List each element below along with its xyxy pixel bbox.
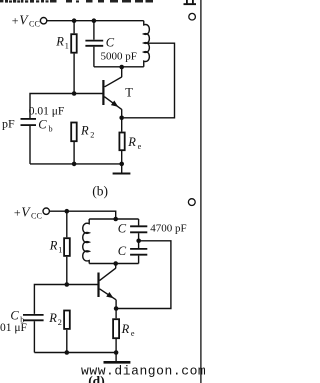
- svg-text:C: C: [106, 35, 115, 49]
- junction emitter node (b): [119, 116, 124, 121]
- label Re (b): [127, 135, 141, 151]
- label R2 (b): [80, 124, 94, 140]
- junction tank top feed (d): [113, 217, 118, 222]
- wire Vcc rail (b): [47, 20, 144, 22]
- svg-text:5000 pF: 5000 pF: [101, 50, 137, 62]
- svg-text:2: 2: [90, 131, 94, 140]
- svg-text:4700 pF: 4700 pF: [150, 222, 186, 234]
- wire coil tap to emitter (b): [124, 43, 175, 118]
- junction cap midpoint (d): [136, 239, 141, 244]
- junction collector node (b): [119, 65, 124, 70]
- transistor T (b): [103, 67, 121, 118]
- junction ground node (d): [114, 350, 119, 355]
- wire ground rail (b): [30, 163, 122, 165]
- top-right cropped glyph: [184, 0, 197, 5]
- junction R2 bottom (b): [72, 162, 77, 167]
- wire cap tap to emitter (d): [118, 241, 171, 309]
- label Re (d): [121, 322, 135, 338]
- svg-text:1: 1: [58, 245, 62, 254]
- svg-text:R: R: [80, 124, 89, 138]
- svg-text:www.diangon.com: www.diangon.com: [81, 363, 206, 378]
- svg-text:0.01 μF: 0.01 μF: [29, 105, 65, 117]
- svg-text:C: C: [10, 309, 19, 323]
- svg-text:+: +: [12, 14, 19, 28]
- svg-text:b: b: [49, 125, 53, 134]
- junction collector node (d): [113, 261, 118, 266]
- capacitor C (b): [85, 21, 103, 67]
- capacitor C upper (d): [130, 219, 147, 241]
- svg-text:C: C: [38, 118, 47, 132]
- junction emitter node (d): [114, 306, 119, 311]
- label R2 (d): [48, 311, 62, 327]
- svg-text:e: e: [131, 329, 135, 338]
- inductor L (d): [83, 219, 89, 264]
- svg-text:2: 2: [58, 318, 62, 327]
- transistor T (d): [99, 264, 117, 309]
- page rule (right vertical line): [200, 0, 202, 383]
- label +Vcc (d): [14, 205, 43, 221]
- resistor Re (b): [119, 118, 124, 164]
- resistor R1 (b): [71, 21, 77, 94]
- resistor Re (d): [113, 309, 119, 353]
- svg-text:R: R: [121, 322, 130, 336]
- svg-text:+: +: [14, 206, 21, 220]
- wire base (b): [30, 94, 103, 119]
- svg-text:01 μF: 01 μF: [0, 322, 27, 334]
- svg-text:V: V: [19, 13, 29, 28]
- label R1 (d): [49, 238, 63, 254]
- svg-text:C: C: [118, 244, 127, 258]
- junction R1 top (d): [65, 209, 70, 214]
- svg-text:CC: CC: [31, 211, 42, 220]
- wire base (d): [34, 285, 98, 314]
- junction C top (b): [92, 18, 97, 23]
- wire tank bottom rail (b): [94, 66, 144, 68]
- capacitor Cb (d): [23, 315, 44, 353]
- svg-text:e: e: [138, 142, 142, 151]
- label R1 (b): [55, 35, 69, 51]
- label Cb (b): [38, 118, 52, 134]
- svg-text:CC: CC: [29, 20, 40, 29]
- junction R2 bottom (d): [65, 350, 70, 355]
- power terminal +Vcc (d): [43, 208, 49, 214]
- svg-text:V: V: [21, 205, 31, 220]
- svg-text:pF: pF: [2, 117, 15, 131]
- svg-text:R: R: [55, 35, 64, 49]
- junction R1 top (b): [72, 18, 77, 23]
- label +Vcc (b): [12, 13, 41, 29]
- wire ground rail (d): [34, 352, 116, 354]
- resistor R2 (b): [71, 123, 77, 164]
- svg-text:(b): (b): [92, 183, 108, 198]
- svg-text:T: T: [125, 85, 133, 99]
- wire Vcc rail (d): [50, 211, 116, 219]
- svg-text:R: R: [48, 311, 57, 325]
- svg-text:R: R: [127, 135, 136, 149]
- wire tank bottom rail (d): [89, 263, 138, 265]
- terminal circle right middle: [188, 199, 195, 206]
- svg-text:1: 1: [65, 42, 69, 51]
- junction base node (d): [65, 282, 70, 287]
- power terminal +Vcc (b): [40, 18, 46, 24]
- junction base node (b): [72, 91, 77, 96]
- capacitor Cb (b): [21, 119, 37, 164]
- junction ground node (b): [119, 162, 124, 167]
- terminal circle right top: [189, 13, 196, 20]
- capacitor C lower (d): [130, 241, 147, 264]
- svg-text:C: C: [118, 221, 127, 235]
- wire tank top rail (d): [89, 218, 138, 220]
- resistor R1 (d): [64, 211, 70, 284]
- label Cb (d): [10, 309, 24, 325]
- inductor L1 (b): [144, 21, 150, 67]
- svg-text:R: R: [49, 238, 58, 252]
- ground (b): [113, 164, 131, 174]
- cropped caption text row (top edge fragments): [0, 0, 153, 3]
- ground (d): [104, 353, 131, 363]
- resistor R2 (d): [64, 311, 70, 353]
